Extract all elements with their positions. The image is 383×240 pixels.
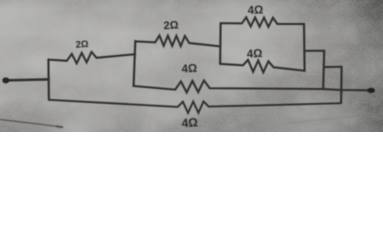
svg-text:4Ω: 4Ω <box>247 48 263 61</box>
svg-text:4Ω: 4Ω <box>181 115 199 130</box>
svg-text:4Ω: 4Ω <box>181 63 197 76</box>
svg-text:2Ω: 2Ω <box>163 19 179 32</box>
svg-text:2Ω: 2Ω <box>75 39 89 51</box>
svg-text:4Ω: 4Ω <box>247 4 263 17</box>
